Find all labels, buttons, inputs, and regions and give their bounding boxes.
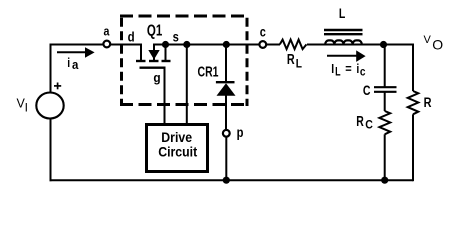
inductor core bar 1	[324, 29, 363, 31]
capacitor C branch wire top	[384, 45, 386, 87]
drain lead	[140, 44, 142, 61]
svg-text:i: i	[67, 56, 70, 70]
svg-text:d: d	[128, 30, 135, 45]
svg-text:R: R	[287, 50, 295, 67]
gate lead	[164, 68, 166, 124]
resistor RL	[280, 40, 307, 50]
resistor RC	[379, 111, 390, 134]
wire c to RL	[267, 44, 281, 46]
dashed box	[120, 16, 249, 106]
wire bottom rail	[50, 179, 414, 181]
svg-text:Drive: Drive	[161, 129, 192, 145]
channel segment 2	[149, 60, 159, 62]
svg-text:s: s	[173, 29, 179, 44]
svg-text:C: C	[365, 119, 373, 132]
svg-text:R: R	[424, 95, 432, 111]
svg-text:a: a	[104, 23, 110, 38]
svg-text:L: L	[335, 67, 340, 79]
junction dot bottom output	[381, 177, 388, 184]
svg-text:I: I	[331, 62, 334, 76]
wire top left	[50, 44, 104, 46]
node p	[223, 130, 230, 137]
wire p to bottom rail	[225, 137, 227, 181]
svg-text:L: L	[296, 58, 302, 71]
svg-text:CR1: CR1	[198, 62, 219, 79]
wire source rail	[153, 44, 260, 46]
drive circuit box	[147, 125, 208, 172]
node c	[259, 41, 266, 48]
label IL = ic	[331, 61, 365, 79]
node a	[103, 41, 110, 48]
label RL	[287, 50, 302, 70]
junction dot bottom CR1	[223, 177, 230, 184]
svg-text:O: O	[432, 37, 443, 53]
capacitor C	[374, 87, 397, 92]
svg-text:g: g	[153, 71, 160, 85]
svg-text:R: R	[356, 113, 364, 129]
wire left vertical top	[50, 44, 52, 93]
svg-text:p: p	[237, 125, 244, 140]
svg-text:V: V	[424, 34, 432, 46]
label Drive Circuit	[158, 129, 198, 160]
svg-text:i: i	[356, 62, 359, 76]
svg-text:C: C	[363, 83, 371, 99]
voltage source VI	[36, 83, 63, 119]
inductor core bar 2	[324, 33, 363, 35]
label VI	[17, 97, 28, 115]
svg-text:c: c	[260, 24, 266, 40]
wire node a to drain	[111, 44, 142, 46]
wire cap to RC	[384, 92, 386, 111]
svg-text:a: a	[72, 57, 79, 72]
junction dot CR1 top	[223, 41, 230, 48]
junction dot s	[162, 41, 169, 48]
wire drive circuit lead	[186, 45, 188, 125]
wire RC to bottom	[384, 134, 386, 181]
inductor L coil	[325, 40, 362, 44]
wire RL to inductor to node	[307, 44, 384, 46]
gate plate	[140, 66, 166, 68]
diode CR1	[216, 45, 236, 131]
junction dot drive	[183, 41, 190, 48]
wire output node to R branch	[384, 44, 414, 46]
transistor Q1	[136, 44, 171, 125]
resistor R branch	[408, 44, 419, 182]
label VO	[424, 34, 444, 53]
source lead	[165, 45, 167, 61]
label RC	[356, 113, 373, 131]
junction dot output node	[380, 41, 387, 48]
channel segment 3	[162, 60, 171, 62]
current arrow ia	[57, 47, 95, 58]
svg-text:c: c	[360, 66, 366, 79]
svg-text:L: L	[339, 6, 346, 22]
svg-text:Circuit: Circuit	[158, 144, 198, 160]
svg-text:Q1: Q1	[147, 20, 163, 38]
channel segment 1	[136, 60, 146, 62]
body arrow	[153, 44, 155, 61]
current arrow IL	[327, 50, 366, 62]
wire left vertical bottom	[50, 119, 52, 181]
svg-text:I: I	[25, 101, 28, 115]
svg-text:=: =	[345, 61, 351, 76]
label ia	[67, 56, 78, 72]
